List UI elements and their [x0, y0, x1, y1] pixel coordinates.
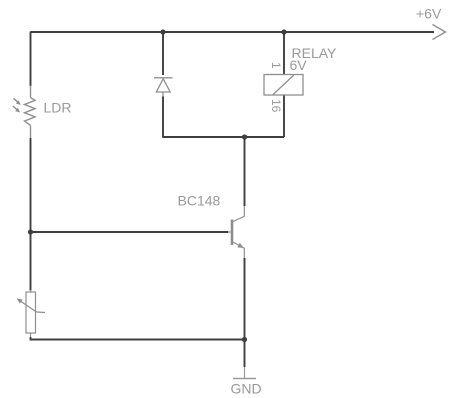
wire: mid horizontal (diode to relay)	[163, 136, 284, 138]
net flag +6V (arrow)	[433, 25, 446, 40]
diode D1	[154, 78, 173, 97]
junction: diode top node	[160, 29, 165, 34]
wire: base wire	[31, 231, 229, 233]
svg-text:6V: 6V	[290, 57, 308, 73]
ground symbol	[233, 367, 256, 379]
wire: relay top	[283, 32, 285, 75]
transistor Q1 (BC148, NPN)	[228, 206, 244, 259]
potentiometer (preset)	[17, 290, 45, 338]
wire: diode top	[162, 32, 164, 76]
LDR (photoresistor)	[13, 86, 35, 139]
svg-text:16: 16	[269, 99, 283, 113]
wire: collector wire	[244, 137, 246, 206]
svg-text:1: 1	[269, 62, 283, 69]
wire: left rail middle segment	[30, 138, 32, 291]
wire: +6V top rail	[31, 31, 435, 33]
relay coil K1	[264, 75, 303, 96]
svg-text:GND: GND	[231, 381, 262, 397]
junction: relay top node	[281, 29, 286, 34]
junction: base node	[28, 229, 33, 234]
wire: left rail top segment	[30, 32, 32, 87]
svg-text:LDR: LDR	[44, 100, 72, 116]
svg-text:+6V: +6V	[416, 6, 442, 22]
wire: bottom rail	[31, 337, 245, 340]
wire: relay bottom	[283, 96, 285, 138]
wire: diode bottom	[162, 97, 164, 138]
junction: emitter/ground node	[242, 337, 247, 342]
junction: collector node	[242, 134, 247, 139]
wire: emitter down to ground	[244, 258, 246, 367]
svg-text:BC148: BC148	[178, 193, 221, 209]
